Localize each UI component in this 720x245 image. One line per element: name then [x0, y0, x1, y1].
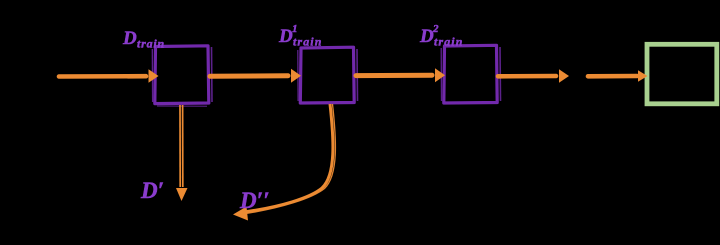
arrow input to D_train	[59, 69, 159, 82]
label D''	[239, 188, 270, 213]
svg-text:train: train	[434, 35, 464, 49]
svg-text:D′′: D′′	[239, 188, 270, 213]
label D_train	[122, 28, 165, 51]
arrow D2_train to dots	[498, 69, 569, 82]
svg-text:2: 2	[432, 23, 439, 35]
arrow D1_train to D2_train	[356, 68, 445, 82]
arrow dots to green box	[588, 70, 648, 82]
svg-text:1: 1	[292, 23, 298, 35]
svg-text:D: D	[278, 26, 293, 47]
svg-text:train: train	[293, 35, 323, 49]
box D_train	[152, 46, 212, 107]
svg-text:train: train	[137, 37, 165, 51]
svg-text:D′: D′	[140, 178, 164, 203]
curved arrow from D1_train to D''	[233, 104, 335, 221]
green output box	[647, 44, 717, 104]
arrow D_train to D1_train	[210, 69, 301, 83]
box D2_train	[441, 45, 500, 103]
svg-text:D: D	[122, 28, 137, 49]
arrow down from D_train to D'	[176, 105, 188, 201]
svg-text:D: D	[419, 26, 434, 47]
label D'	[140, 178, 164, 203]
box D1_train	[298, 47, 358, 103]
label D2_train	[419, 23, 464, 49]
label D1_train	[278, 23, 323, 49]
